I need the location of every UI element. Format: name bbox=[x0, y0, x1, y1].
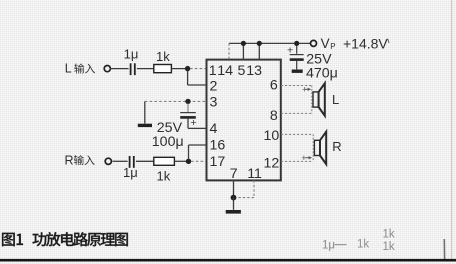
wire pin10 bbox=[281, 133, 313, 135]
wire bbox=[191, 160, 207, 162]
speaker L bbox=[311, 86, 313, 114]
node pin17 junction bbox=[186, 159, 191, 164]
svg-text:1μ: 1μ bbox=[124, 47, 139, 62]
power rail Vp bbox=[229, 42, 311, 44]
svg-text:L: L bbox=[65, 62, 72, 76]
node bottom junction bbox=[231, 195, 237, 201]
node 470μ tap bbox=[294, 41, 299, 46]
ground 470μ bbox=[292, 69, 303, 72]
node pin13 bbox=[257, 41, 262, 46]
svg-text:2: 2 bbox=[210, 79, 218, 95]
capacitor C1 1μ bbox=[124, 47, 139, 76]
svg-text:11: 11 bbox=[247, 166, 262, 182]
wire bbox=[113, 160, 128, 162]
wire pin13 stub bbox=[258, 43, 260, 59]
svg-text:12: 12 bbox=[264, 155, 280, 171]
wire bbox=[144, 101, 146, 123]
wire bbox=[233, 198, 235, 210]
svg-text:5: 5 bbox=[238, 63, 246, 79]
wire bbox=[137, 68, 154, 70]
wire bbox=[190, 68, 207, 70]
wire bbox=[110, 68, 128, 70]
ground left bbox=[138, 124, 152, 127]
svg-text:470μ: 470μ bbox=[306, 66, 338, 82]
svg-text:100μ: 100μ bbox=[152, 134, 184, 150]
wire pin11 bbox=[253, 180, 255, 197]
svg-text:17: 17 bbox=[210, 154, 226, 170]
polarity arrow R bbox=[301, 153, 312, 163]
svg-text:1k: 1k bbox=[357, 239, 369, 251]
wire pin8 bbox=[281, 112, 312, 114]
svg-text:4: 4 bbox=[210, 121, 218, 137]
label Vp +14.8V bbox=[321, 36, 389, 52]
wire pin12 bbox=[281, 160, 313, 162]
node pin5 bbox=[241, 41, 246, 46]
terminal L input bbox=[104, 66, 110, 72]
wire pin14 stub bbox=[228, 43, 230, 59]
wire pin3 net bbox=[145, 100, 207, 102]
svg-text:1μ: 1μ bbox=[322, 240, 335, 252]
terminal Vp bbox=[311, 40, 317, 46]
svg-text:R: R bbox=[65, 153, 74, 167]
capacitor C3 100μ bbox=[180, 104, 196, 130]
wire bbox=[174, 160, 188, 162]
svg-text:1k: 1k bbox=[383, 229, 395, 241]
wire bbox=[187, 71, 189, 85]
polarity arrow L bbox=[302, 85, 311, 95]
svg-text:L: L bbox=[332, 92, 339, 107]
resistor R2 1k bbox=[154, 157, 175, 183]
svg-text:13: 13 bbox=[246, 63, 262, 79]
speaker R bbox=[312, 134, 314, 161]
svg-text:16: 16 bbox=[210, 138, 226, 154]
terminal R input bbox=[105, 158, 111, 164]
svg-text:1k: 1k bbox=[156, 49, 170, 64]
svg-text:+: + bbox=[191, 117, 197, 129]
svg-text:1k: 1k bbox=[383, 241, 395, 253]
node L-input label bbox=[65, 62, 95, 76]
scan edge vertical bbox=[451, 0, 453, 259]
svg-text:P: P bbox=[330, 42, 335, 51]
caption 图1 功放电路原理图 bbox=[2, 232, 128, 246]
svg-text:10: 10 bbox=[264, 128, 280, 144]
stray stroke bottom right bbox=[443, 239, 445, 259]
wire pin4 bbox=[187, 119, 189, 129]
svg-text:3: 3 bbox=[210, 95, 218, 111]
svg-text:+: + bbox=[302, 85, 307, 95]
svg-text:1μ: 1μ bbox=[123, 165, 138, 180]
svg-text:7: 7 bbox=[230, 166, 238, 182]
capacitor C4 470μ bbox=[287, 45, 304, 60]
node pin3 junction bbox=[185, 99, 190, 104]
capacitor C2 1μ bbox=[123, 156, 138, 180]
wire bbox=[171, 68, 187, 70]
svg-text:6: 6 bbox=[270, 78, 278, 94]
ground bottom bbox=[226, 210, 241, 214]
svg-text:1: 1 bbox=[209, 63, 217, 79]
resistor R1 1k bbox=[154, 49, 172, 73]
wire pin6 bbox=[281, 85, 312, 87]
svg-text:8: 8 bbox=[270, 108, 278, 124]
wire bbox=[136, 160, 154, 162]
svg-text:R: R bbox=[332, 139, 341, 154]
wire pin5 stub bbox=[242, 43, 244, 59]
wire bbox=[296, 61, 298, 70]
svg-text:1k: 1k bbox=[157, 169, 171, 184]
svg-text:+14.8V: +14.8V bbox=[343, 36, 388, 52]
op-amp IC U1 (power amp) bbox=[207, 60, 281, 181]
wire pin7 bbox=[233, 180, 235, 197]
bottom border line bbox=[0, 259, 456, 262]
node pin1 junction bbox=[185, 66, 190, 71]
wire pin16 branch bbox=[188, 145, 190, 159]
svg-text:V: V bbox=[321, 36, 330, 51]
svg-text:14: 14 bbox=[217, 63, 233, 79]
svg-text:+: + bbox=[301, 153, 306, 163]
node R-input label bbox=[65, 153, 95, 167]
